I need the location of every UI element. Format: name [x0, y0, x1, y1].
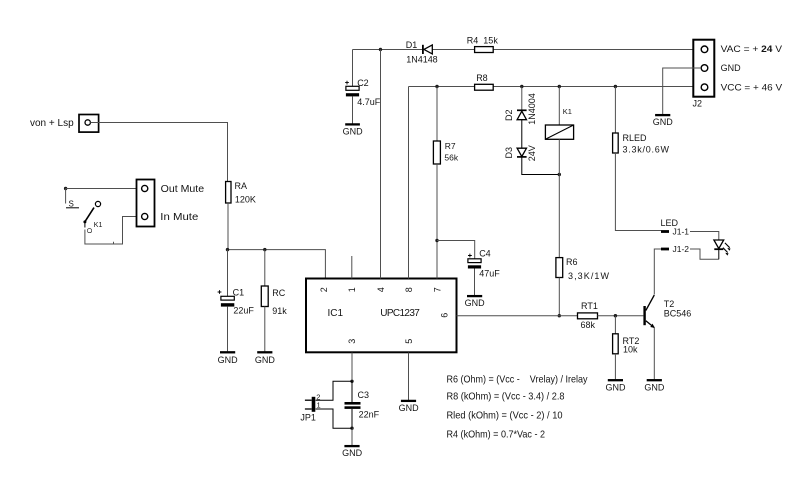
- op-amp IC1 UPC1237 box: [306, 279, 457, 353]
- connector J2: [693, 40, 783, 109]
- node R6 bottom: [558, 314, 561, 317]
- svg-text:120K: 120K: [235, 194, 256, 204]
- capacitor C1: [218, 250, 255, 352]
- resistor R8: [475, 73, 494, 90]
- svg-text:22uF: 22uF: [233, 306, 254, 316]
- svg-text:JP1: JP1: [300, 412, 316, 422]
- node C1: [226, 248, 229, 251]
- resistor RC: [261, 250, 287, 352]
- svg-text:R8: R8: [476, 73, 488, 83]
- svg-text:In Mute: In Mute: [160, 212, 198, 223]
- svg-text:1N4004: 1N4004: [527, 93, 537, 125]
- resistor R6: [556, 257, 610, 316]
- wire J1-2 to T2 collector: [654, 249, 661, 295]
- node pin4: [379, 48, 382, 51]
- svg-text:UPC1237: UPC1237: [380, 308, 420, 319]
- relay K1: [545, 87, 573, 175]
- diode D1 1N4148: [406, 40, 438, 64]
- svg-text:GND: GND: [255, 355, 276, 365]
- ground pin5: [399, 401, 420, 413]
- svg-text:S: S: [69, 200, 74, 209]
- capacitor C2: [345, 50, 381, 124]
- svg-text:T2: T2: [664, 299, 675, 309]
- svg-text:C4: C4: [479, 248, 491, 258]
- wire pin3: [351, 353, 353, 382]
- node J1-2 pad: [661, 244, 689, 254]
- svg-text:91k: 91k: [272, 306, 287, 316]
- ground RC: [255, 352, 276, 365]
- svg-text:von + Lsp: von + Lsp: [30, 118, 74, 129]
- node R7 top: [435, 85, 438, 88]
- svg-text:8: 8: [404, 287, 414, 292]
- wire VCC rail: [409, 86, 475, 88]
- svg-text:R7: R7: [445, 141, 456, 151]
- node D2 top: [520, 85, 523, 88]
- capacitor C3: [345, 381, 380, 428]
- wire pin8: [408, 87, 410, 279]
- resistor RLED: [613, 87, 670, 231]
- svg-text:GND: GND: [644, 383, 665, 393]
- svg-text:C3: C3: [358, 390, 370, 400]
- svg-text:1N4148: 1N4148: [406, 55, 437, 65]
- svg-text:GND: GND: [721, 63, 742, 73]
- wire C3 to GND: [351, 428, 353, 445]
- svg-text:RA: RA: [235, 181, 248, 191]
- svg-text:GND: GND: [465, 298, 486, 308]
- svg-text:C1: C1: [233, 287, 245, 297]
- svg-text:10k: 10k: [623, 344, 638, 354]
- svg-text:6: 6: [440, 313, 450, 318]
- svg-text:3,3K/1W: 3,3K/1W: [568, 271, 610, 281]
- svg-text:BC546: BC546: [664, 309, 692, 319]
- svg-text:R6: R6: [566, 257, 578, 267]
- node switch top: [64, 187, 67, 190]
- svg-text:Rled (kOhm) = (Vcc - 2) / 10: Rled (kOhm) = (Vcc - 2) / 10: [447, 410, 563, 422]
- svg-text:68k: 68k: [581, 320, 596, 330]
- svg-text:R4 15k: R4 15k: [467, 35, 499, 45]
- wire pin6 to RT1: [457, 315, 578, 317]
- svg-text:24V: 24V: [527, 145, 537, 161]
- wire RA bottom: [227, 203, 229, 250]
- node RC: [263, 248, 266, 251]
- svg-text:IC1: IC1: [328, 308, 344, 319]
- resistor R4: [467, 35, 499, 52]
- wire J1-1 to LED: [690, 232, 719, 240]
- wire switch bottom to In Mute: [85, 217, 137, 245]
- ground C4: [465, 296, 486, 308]
- wire J2 GND: [663, 68, 702, 114]
- svg-text:RT1: RT1: [581, 301, 598, 311]
- node relay bottom: [558, 173, 561, 176]
- svg-text:GND: GND: [342, 448, 363, 458]
- svg-text:GND: GND: [606, 383, 627, 393]
- wire pin1 stub: [351, 256, 353, 279]
- svg-text:RLED: RLED: [623, 133, 648, 143]
- svg-text:D3: D3: [504, 147, 514, 159]
- wire von+Lsp to RA: [90, 123, 227, 182]
- svg-text:GND: GND: [399, 403, 420, 413]
- resistor RA: [226, 181, 256, 204]
- resistor R7: [433, 87, 458, 279]
- node C3 top: [350, 380, 353, 383]
- diode D2 1N4004: [504, 87, 537, 149]
- node pin7/C4: [435, 239, 438, 242]
- ground C2: [343, 124, 364, 136]
- wire RT1 to base: [598, 315, 644, 317]
- svg-text:J2: J2: [693, 98, 703, 108]
- ground C1: [218, 352, 239, 365]
- svg-text:22nF: 22nF: [359, 409, 380, 419]
- svg-text:4: 4: [376, 287, 386, 292]
- wire VAC rail: [353, 49, 423, 51]
- wire C4 branch: [437, 241, 475, 259]
- wire pin4: [380, 50, 382, 279]
- svg-text:5: 5: [404, 339, 414, 344]
- wire node row to IC pin2: [228, 250, 326, 279]
- wire switch stub down: [65, 189, 67, 204]
- capacitor C4: [468, 248, 500, 295]
- svg-text:Out Mute: Out Mute: [161, 184, 205, 195]
- svg-text:2: 2: [319, 287, 329, 292]
- svg-text:3: 3: [347, 339, 357, 344]
- node J1-1 pad: [661, 226, 689, 236]
- connector von+Lsp: [30, 115, 99, 133]
- svg-text:R6 (Ohm) = (Vcc - Vrelay) /: R6 (Ohm) = (Vcc - Vrelay) / Irelay: [447, 374, 589, 386]
- svg-text:RC: RC: [272, 288, 285, 298]
- svg-text:R4 (kOhm) = 0.7*Vac - 2: R4 (kOhm) = 0.7*Vac - 2: [447, 429, 546, 441]
- svg-text:D2: D2: [504, 109, 514, 121]
- svg-text:7: 7: [432, 287, 442, 292]
- wire J1-2 to LED cathode: [690, 249, 719, 259]
- svg-text:56k: 56k: [444, 153, 458, 163]
- svg-text:K1: K1: [94, 222, 103, 229]
- ground C3: [342, 446, 363, 458]
- svg-text:1: 1: [347, 287, 357, 292]
- svg-text:47uF: 47uF: [479, 268, 500, 278]
- connector J-mute Out/In Mute: [137, 180, 205, 227]
- ground RT2: [606, 380, 627, 392]
- node C3 bottom: [350, 427, 353, 430]
- svg-text:J1-1: J1-1: [673, 226, 690, 236]
- ground T2: [644, 380, 665, 392]
- wire relay to R6: [558, 175, 560, 258]
- node relay top: [558, 85, 561, 88]
- diode D3 24V zener: [504, 145, 559, 174]
- svg-text:GND: GND: [653, 117, 674, 127]
- node RT2 top: [614, 314, 617, 317]
- svg-text:3.3k/0.6W: 3.3k/0.6W: [623, 144, 670, 154]
- svg-text:GND: GND: [218, 355, 239, 365]
- svg-text:D1: D1: [406, 40, 418, 50]
- svg-text:VAC = + 24 V: VAC = + 24 V: [721, 44, 783, 54]
- switch S/K1: [66, 200, 102, 234]
- svg-text:VCC = + 46 V: VCC = + 46 V: [721, 82, 783, 92]
- wire switch top to Out Mute: [66, 188, 137, 190]
- svg-text:C2: C2: [357, 78, 369, 88]
- jumper JP1: [300, 381, 352, 428]
- LED diode symbol: [714, 240, 731, 259]
- svg-text:R8 (kOhm) = (Vcc - 3.4) / 2.8: R8 (kOhm) = (Vcc - 3.4) / 2.8: [447, 391, 565, 403]
- svg-text:1: 1: [317, 401, 321, 410]
- wire pin5: [408, 353, 410, 401]
- svg-text:GND: GND: [343, 126, 364, 136]
- svg-text:K1: K1: [563, 107, 572, 116]
- transistor T2 BC546: [643, 295, 691, 379]
- node RLED top: [614, 85, 617, 88]
- resistor RT1: [578, 301, 598, 330]
- svg-text:J1-2: J1-2: [673, 244, 690, 254]
- ground J2: [653, 115, 674, 127]
- resistor RT2: [613, 316, 640, 380]
- svg-text:4.7uF: 4.7uF: [357, 97, 381, 107]
